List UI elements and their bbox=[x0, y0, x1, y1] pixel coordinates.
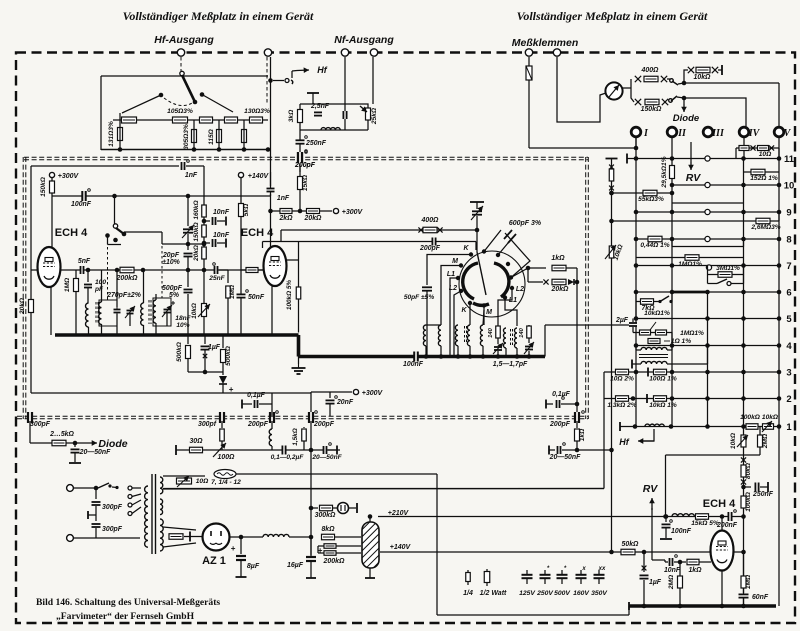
capacitor 50nF bbox=[241, 289, 247, 291]
wire contact Mb lead bbox=[483, 307, 485, 325]
svg-text:M: M bbox=[452, 258, 458, 265]
wire 300V tap bbox=[311, 391, 352, 393]
resistor chain r1 bbox=[122, 117, 137, 123]
trimmer col188 bbox=[183, 230, 193, 232]
node row10 bbox=[670, 183, 675, 188]
resistor 20kohm rotary bbox=[552, 279, 566, 285]
svg-text:50nF: 50nF bbox=[248, 294, 265, 301]
svg-text:+300V: +300V bbox=[58, 173, 80, 180]
resistor AZ1 filament bbox=[169, 534, 183, 540]
inner shield box (double dashed) bbox=[24, 156, 588, 158]
wire col31 bbox=[30, 166, 32, 393]
wire V drop bbox=[778, 83, 780, 127]
terminal III bbox=[703, 127, 713, 137]
svg-text:300kΩ: 300kΩ bbox=[315, 512, 336, 519]
svg-text:20kΩ: 20kΩ bbox=[19, 297, 26, 315]
wire rotary feed bbox=[475, 242, 477, 251]
svg-text:100nF: 100nF bbox=[403, 361, 424, 368]
wire rail474 corner bbox=[436, 474, 438, 615]
resistor 3kohm bbox=[298, 110, 303, 123]
clip 743 b bbox=[741, 479, 746, 484]
resistor 100kohm vert bbox=[741, 496, 746, 508]
wire tube2 cathode bbox=[271, 285, 273, 335]
svg-text:20kΩ: 20kΩ bbox=[551, 286, 569, 293]
svg-text:Nf-Ausgang: Nf-Ausgang bbox=[334, 34, 394, 46]
tube ECH4 third bbox=[711, 531, 734, 571]
wire linkage dashed bbox=[107, 247, 109, 302]
wire mains b bbox=[74, 537, 96, 539]
node 552 bbox=[609, 550, 614, 555]
wire divider bottom bbox=[369, 568, 371, 578]
svg-text:100nF: 100nF bbox=[671, 528, 692, 535]
legend cap 350V bbox=[598, 570, 600, 574]
switch 7k bbox=[654, 301, 659, 303]
svg-text:0,1—0,2µF: 0,1—0,2µF bbox=[271, 454, 305, 461]
capacitor 2.5nF bbox=[314, 113, 322, 115]
resistor 1.3kohm 2pc bbox=[616, 396, 629, 402]
coil osc1b bbox=[99, 302, 102, 324]
rotary wiper bbox=[477, 252, 486, 295]
svg-text:Bild 146. Schaltung des Univer: Bild 146. Schaltung des Universal-Meßger… bbox=[36, 597, 220, 608]
coil anode bbox=[672, 514, 694, 517]
resistor 160kohm bbox=[202, 205, 207, 217]
svg-text:±10%: ±10% bbox=[162, 259, 180, 266]
resistor row5 sub b bbox=[656, 330, 667, 335]
terminal 140V bbox=[238, 172, 243, 177]
capacitor 8uF bbox=[239, 535, 244, 540]
capacitor Nf mid bbox=[344, 111, 346, 119]
capacitor 300pF psu a bbox=[95, 488, 97, 499]
svg-text:350V: 350V bbox=[591, 590, 608, 597]
tube ECH4 first bbox=[38, 247, 61, 287]
capacitor 300pF psu b bbox=[92, 525, 101, 527]
node row5 bbox=[634, 316, 639, 321]
trimmer bank a bbox=[494, 348, 502, 350]
trimmer tuned2 bbox=[166, 300, 168, 307]
resistor 2kohm bbox=[280, 209, 292, 214]
rotary thick arc bottom bbox=[473, 303, 489, 305]
wire anode2 bbox=[286, 259, 299, 261]
contact L1 right bbox=[503, 295, 507, 299]
svg-text:500V: 500V bbox=[554, 590, 571, 597]
resistor 140 b bbox=[527, 326, 532, 338]
capacitor 10nF g3 bbox=[670, 558, 672, 566]
svg-text:6: 6 bbox=[786, 288, 791, 299]
wire Messklemme b drop bbox=[557, 57, 606, 122]
svg-text:+300V: +300V bbox=[362, 390, 384, 397]
meter M bbox=[605, 82, 622, 99]
wire heater rail 474 bbox=[236, 473, 437, 475]
capacitor 0.1uF left bbox=[241, 400, 243, 409]
svg-text:M: M bbox=[486, 309, 492, 316]
capacitor 1nF stage1 bbox=[182, 162, 184, 170]
svg-text:10: 10 bbox=[784, 181, 795, 192]
resistor 150kohm bbox=[645, 99, 659, 105]
svg-text:500pF: 500pF bbox=[162, 285, 183, 292]
resistor 20kohm left bbox=[29, 300, 34, 313]
potentiometer 10kohm osc bbox=[202, 304, 207, 317]
capacitor 100nF dec bbox=[665, 517, 667, 523]
svg-text:5nF: 5nF bbox=[78, 258, 91, 265]
node row4 bbox=[634, 343, 639, 348]
capacitor 10nF a bbox=[204, 220, 210, 222]
coil osc1 bbox=[86, 303, 89, 327]
wire atten chain bbox=[113, 119, 268, 121]
switch mains bbox=[96, 487, 107, 489]
svg-text:RV: RV bbox=[686, 172, 702, 184]
contact K bottom bbox=[468, 301, 472, 305]
wire col577 bbox=[576, 282, 578, 412]
svg-text:1MΩ: 1MΩ bbox=[64, 277, 71, 292]
svg-text:Hf: Hf bbox=[619, 437, 629, 447]
svg-text:Hf: Hf bbox=[317, 65, 327, 75]
resistor 1Mohm mid bbox=[227, 270, 229, 283]
svg-text:2MΩ: 2MΩ bbox=[668, 574, 675, 590]
coil Nf box bbox=[321, 128, 340, 130]
svg-text:200pF: 200pF bbox=[247, 421, 269, 428]
clip mark 150k right bbox=[662, 99, 668, 105]
svg-text:300pF: 300pF bbox=[102, 526, 123, 533]
svg-text:200nF: 200nF bbox=[716, 522, 738, 529]
svg-text:200kΩ: 200kΩ bbox=[322, 558, 345, 565]
resistor 400ohm top bbox=[644, 76, 658, 82]
svg-text:160V: 160V bbox=[573, 590, 590, 597]
svg-text:500kΩ: 500kΩ bbox=[176, 341, 183, 362]
svg-text:2…5kΩ: 2…5kΩ bbox=[49, 431, 74, 438]
svg-text:7, 1/4 - 12: 7, 1/4 - 12 bbox=[211, 479, 241, 486]
capacitor 250nF bbox=[296, 141, 305, 143]
clip 400 left bbox=[418, 227, 423, 232]
svg-text:AZ 1: AZ 1 bbox=[202, 555, 226, 567]
capacitor 20pF bbox=[184, 254, 193, 256]
wire row5 bbox=[636, 318, 779, 320]
contact stud row11 bbox=[705, 156, 710, 161]
resistor 300kohm bbox=[320, 505, 333, 511]
wire sec top leads bbox=[163, 475, 205, 477]
divider hatched bbox=[362, 522, 379, 568]
svg-text:Vollständiger Meßplatz in eine: Vollständiger Meßplatz in einem Gerät bbox=[517, 9, 708, 23]
wire 600pF branch bbox=[484, 230, 530, 278]
resistor 100kohm row1 bbox=[708, 426, 780, 428]
tube ECH4 second bbox=[264, 246, 287, 286]
wire Nf box bbox=[300, 104, 368, 130]
contact stud row9 bbox=[705, 209, 710, 214]
capacitor 100pF bbox=[87, 270, 89, 282]
resistor atten vert4 bbox=[242, 130, 247, 143]
resistor 15kohm bbox=[299, 166, 301, 176]
svg-text:80kΩ: 80kΩ bbox=[745, 462, 752, 479]
svg-text:18nF: 18nF bbox=[175, 315, 191, 322]
clip row11 bbox=[750, 145, 755, 150]
coil row1 bbox=[645, 424, 664, 426]
svg-text:1nF: 1nF bbox=[185, 172, 198, 179]
wire grid line osc bbox=[60, 269, 264, 271]
capacitor 200pF border right bbox=[576, 412, 579, 423]
node contact left bbox=[159, 93, 164, 98]
resistor 200kohm osc bbox=[120, 267, 134, 273]
clip 20k right bbox=[568, 279, 574, 285]
potentiometer 10kohm x611 bbox=[609, 246, 614, 258]
svg-text:20—50nF: 20—50nF bbox=[79, 449, 111, 456]
resistor 50kohm bbox=[621, 549, 635, 555]
resistor 1ohm row4 bbox=[648, 339, 660, 344]
wire row11 bbox=[627, 158, 779, 160]
resistor row5 sub a bbox=[640, 330, 651, 335]
svg-text:100Ω: 100Ω bbox=[218, 454, 235, 461]
wire Hf tap arrow bbox=[273, 80, 284, 82]
wire switch drop bbox=[114, 196, 116, 224]
resistor 10kohm 1pc bbox=[654, 396, 667, 402]
svg-text:0,1µF: 0,1µF bbox=[552, 391, 571, 398]
potentiometer 10kohm vert bbox=[741, 435, 746, 447]
resistor 2-5kohm bbox=[52, 440, 66, 446]
transformer row4 core bbox=[639, 354, 668, 356]
rotary thick arc right bbox=[494, 263, 509, 297]
node atten bottom bbox=[118, 147, 123, 152]
wire attenuator box bbox=[101, 76, 268, 150]
resistor 10ohm psu bbox=[177, 478, 192, 484]
wire column 611 bbox=[611, 159, 613, 553]
clip 20k left bbox=[543, 279, 548, 284]
node row9 bbox=[634, 210, 639, 215]
capacitor 100nF bank bbox=[415, 352, 418, 362]
svg-text:100nF: 100nF bbox=[71, 201, 92, 208]
contact M bottom bbox=[482, 303, 486, 307]
svg-text:55kΩ3%: 55kΩ3% bbox=[638, 196, 664, 203]
node row6 bbox=[634, 290, 639, 295]
wire column 665 bbox=[665, 455, 667, 517]
svg-text:ECH 4: ECH 4 bbox=[55, 227, 88, 239]
resistor 131ohm vert bbox=[118, 128, 123, 141]
svg-text:60nF: 60nF bbox=[752, 594, 769, 601]
svg-text:100: 100 bbox=[95, 279, 106, 286]
coil bank x483 bbox=[480, 325, 483, 346]
coil osc2 bbox=[141, 303, 144, 325]
tap 300pF bbox=[88, 514, 96, 516]
svg-text:8µF: 8µF bbox=[247, 563, 260, 570]
legend cap 125V bbox=[526, 570, 528, 574]
terminal bar row11 bbox=[626, 154, 628, 164]
svg-text:xx: xx bbox=[598, 566, 606, 572]
transformer osc1 core bbox=[95, 302, 97, 324]
wire row5 sub bbox=[633, 332, 672, 334]
svg-text:10kΩ: 10kΩ bbox=[730, 432, 737, 449]
node 743 250nF bbox=[741, 485, 746, 490]
capacitor 1uF det bbox=[204, 335, 206, 344]
wire row4 trafo leads bbox=[635, 346, 637, 351]
svg-text:20nF: 20nF bbox=[336, 399, 354, 406]
contact stud row10 bbox=[705, 182, 710, 187]
node row3 bbox=[634, 370, 639, 375]
wire tube3 bottom bbox=[721, 570, 723, 606]
svg-text:4: 4 bbox=[786, 341, 792, 352]
wire tube3 top bbox=[721, 517, 723, 532]
box tuned1 bbox=[99, 300, 117, 326]
node row1 bbox=[633, 424, 638, 429]
capacitor tuned1 bbox=[116, 270, 118, 307]
resistor 7kohm bbox=[641, 299, 654, 305]
svg-text:Vollständiger Meßplatz in eine: Vollständiger Meßplatz in einem Gerät bbox=[123, 9, 314, 23]
wire col204 bbox=[203, 196, 205, 270]
capacitor 10nF b bbox=[204, 242, 210, 244]
wire grid line tube3 bbox=[652, 559, 665, 561]
svg-text:200pF: 200pF bbox=[419, 245, 441, 252]
wire tube1 cathode bbox=[50, 286, 52, 335]
wire x611 detail bbox=[606, 158, 618, 160]
svg-text:10kΩ 1%: 10kΩ 1% bbox=[649, 402, 677, 409]
clip mark 400ohm left bbox=[635, 76, 641, 82]
resistor 100ohm 1pc bbox=[654, 369, 667, 375]
wire column IV bbox=[743, 137, 745, 159]
svg-text:152Ω 1%: 152Ω 1% bbox=[750, 175, 778, 182]
coil bank x458 bbox=[455, 325, 458, 346]
node row7 bbox=[634, 263, 639, 268]
ground 311 bbox=[306, 577, 316, 579]
svg-text:1: 1 bbox=[786, 422, 792, 433]
svg-text:11: 11 bbox=[784, 154, 795, 165]
wire det link bbox=[188, 371, 223, 373]
potentiometer 100ohm bbox=[213, 443, 226, 457]
resistor 55kohm 3pc bbox=[612, 192, 673, 194]
resistor 152ohm 1pc bbox=[744, 171, 780, 173]
svg-text:200pF: 200pF bbox=[549, 421, 571, 428]
wire bank right edge bbox=[544, 325, 546, 357]
contact studs mains bbox=[128, 486, 132, 490]
svg-text:50kΩ: 50kΩ bbox=[622, 541, 639, 548]
svg-text:1MΩ1%: 1MΩ1% bbox=[678, 261, 702, 268]
wire switch line bbox=[124, 231, 162, 233]
svg-text:140: 140 bbox=[519, 327, 525, 337]
wire 2uF link bbox=[545, 324, 629, 326]
coil 272 down bbox=[271, 421, 273, 429]
clip mark 10k right bbox=[712, 67, 718, 73]
legend cap 500V bbox=[561, 570, 563, 574]
svg-text:5kΩ: 5kΩ bbox=[243, 203, 250, 216]
svg-text:100kΩ: 100kΩ bbox=[745, 491, 752, 512]
svg-text:100kΩ 5%: 100kΩ 5% bbox=[286, 280, 293, 311]
svg-text:600pF 3%: 600pF 3% bbox=[509, 220, 542, 227]
node switch contact b bbox=[113, 238, 118, 243]
terminal Messklemme b bbox=[553, 49, 560, 56]
resistor 200kohm a bbox=[324, 544, 336, 549]
capacitor 200pF rotary bbox=[433, 238, 435, 246]
resistor 115ohm vert bbox=[217, 130, 222, 143]
filter choke bbox=[263, 534, 289, 537]
switch osc blade bbox=[116, 228, 124, 234]
svg-text:305Ω3%: 305Ω3% bbox=[183, 124, 190, 150]
terminal I bbox=[631, 127, 641, 137]
resistor 400ohm bbox=[423, 227, 437, 233]
node grid osc bbox=[86, 268, 91, 273]
terminal mains a bbox=[67, 485, 74, 492]
wire row8 link bbox=[672, 246, 744, 248]
svg-text:2kΩ: 2kΩ bbox=[278, 215, 293, 222]
wire to switch top bbox=[667, 78, 670, 80]
node switch contact a bbox=[105, 233, 110, 238]
svg-text:„Farvimeter“ der Fernseh GmbH: „Farvimeter“ der Fernseh GmbH bbox=[56, 611, 195, 622]
terminal II bbox=[667, 127, 677, 137]
svg-text:125V: 125V bbox=[519, 590, 536, 597]
svg-text:RV: RV bbox=[643, 483, 659, 495]
switch hinge attenuator bbox=[180, 71, 184, 75]
wire heater line 450 bbox=[176, 449, 340, 451]
ground bus left bbox=[55, 333, 299, 337]
svg-text:ECH 4: ECH 4 bbox=[241, 227, 274, 239]
resistor 1Mohm tube3 bbox=[743, 552, 745, 576]
wire contact K lead bbox=[427, 255, 471, 266]
capacitor 311 border bbox=[310, 412, 313, 423]
wire row10 bbox=[672, 184, 779, 186]
wire Nf terminal b drop bbox=[372, 57, 374, 104]
resistor chain r4 bbox=[225, 117, 238, 123]
wire stud leads bbox=[132, 487, 141, 489]
svg-text:III: III bbox=[711, 128, 725, 139]
resistor 150kohm mid bbox=[202, 225, 207, 237]
wire dashed selector arc bbox=[164, 98, 192, 106]
legend cap 250V bbox=[544, 570, 546, 574]
wire contact L2r lead bbox=[498, 290, 512, 325]
resistor 1kohm col577 bbox=[576, 421, 578, 428]
terminal mains b bbox=[67, 535, 74, 542]
resistor 20kohm mid bbox=[202, 247, 207, 259]
wire atten chain dashed seg bbox=[139, 119, 171, 121]
terminal IV bbox=[739, 127, 749, 137]
clip mark 150k left bbox=[635, 99, 641, 105]
svg-text:16µF: 16µF bbox=[287, 562, 304, 569]
svg-text:300pF: 300pF bbox=[30, 421, 51, 428]
svg-text:15kΩ 5%: 15kΩ 5% bbox=[691, 520, 719, 527]
capacitor 272 border bbox=[271, 412, 274, 423]
contact 1k feed bbox=[506, 262, 510, 266]
capacitor 25nF bbox=[215, 266, 217, 274]
svg-text:0,1µF: 0,1µF bbox=[247, 392, 266, 399]
contact M left bbox=[459, 263, 463, 267]
capacitor 50pF bbox=[426, 265, 428, 285]
contact 600pF b bbox=[496, 253, 500, 257]
ground symbol main bbox=[298, 357, 300, 365]
resistor 1.5kohm bbox=[303, 427, 305, 428]
capacitor 60nF bbox=[739, 595, 749, 597]
svg-text:150kΩ: 150kΩ bbox=[193, 222, 200, 241]
wire 10ohm branch bbox=[736, 147, 779, 149]
resistor 500kohm b bbox=[222, 335, 224, 348]
wire tube1 left bbox=[31, 269, 38, 271]
node row2 bbox=[631, 396, 636, 401]
svg-text:25kΩ: 25kΩ bbox=[371, 107, 378, 125]
wire column 636 bbox=[635, 137, 637, 427]
svg-text:10nF: 10nF bbox=[213, 209, 230, 216]
svg-text:+: + bbox=[231, 544, 236, 553]
svg-text:140: 140 bbox=[488, 327, 494, 337]
wire col188 bbox=[187, 196, 189, 226]
wire row3 bbox=[604, 371, 779, 373]
wire switch line 244 bbox=[107, 236, 109, 245]
wire contact Kb lead bbox=[469, 305, 471, 325]
capacitor 20-50nF right bbox=[548, 446, 550, 455]
coil bank core dashes bbox=[464, 326, 466, 344]
svg-text:25nF: 25nF bbox=[208, 275, 225, 282]
wire trimmer col bbox=[470, 201, 484, 203]
capacitor 1uF g3 bbox=[643, 552, 645, 572]
resistor 80kohm bbox=[741, 465, 746, 477]
wire mains a bbox=[74, 487, 96, 489]
capacitor 200pF b2 bbox=[299, 152, 302, 163]
rotary thick arc left bbox=[463, 263, 478, 299]
resistor 1Mohm 1pc bbox=[685, 255, 699, 261]
svg-text:400Ω: 400Ω bbox=[421, 217, 439, 224]
wire row4 bbox=[636, 345, 779, 347]
wire diode line bbox=[30, 442, 75, 444]
